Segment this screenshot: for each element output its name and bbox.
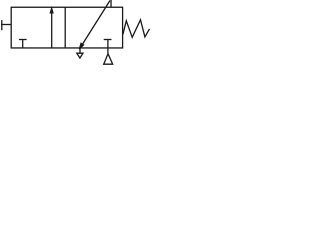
plunger actuator bar	[1, 20, 3, 30]
valve position divider	[64, 7, 66, 48]
flow arrow head	[50, 8, 53, 13]
diagonal flow line (right square)	[82, 1, 110, 45]
port 3 stub	[79, 48, 81, 53]
valve body left position square	[11, 7, 122, 48]
port 2 pipe (top)	[110, 0, 112, 7]
blocked port T2 crossbar	[104, 39, 112, 41]
blocked port T2 stem / port 1 stub	[107, 40, 109, 54]
return spring	[123, 20, 150, 38]
blocked port T1 crossbar	[19, 39, 27, 41]
blocked port T1 stem	[22, 40, 24, 49]
valve V1 (3/2-way directional valve, plunger actuated, spring return)	[0, 0, 150, 68]
supply triangle (port 1)	[104, 54, 113, 64]
plunger actuator stem	[1, 24, 11, 26]
flow arrow shaft (left square)	[51, 12, 53, 48]
diagonal arrow head	[79, 43, 83, 49]
exhaust triangle (port 3)	[77, 53, 83, 58]
